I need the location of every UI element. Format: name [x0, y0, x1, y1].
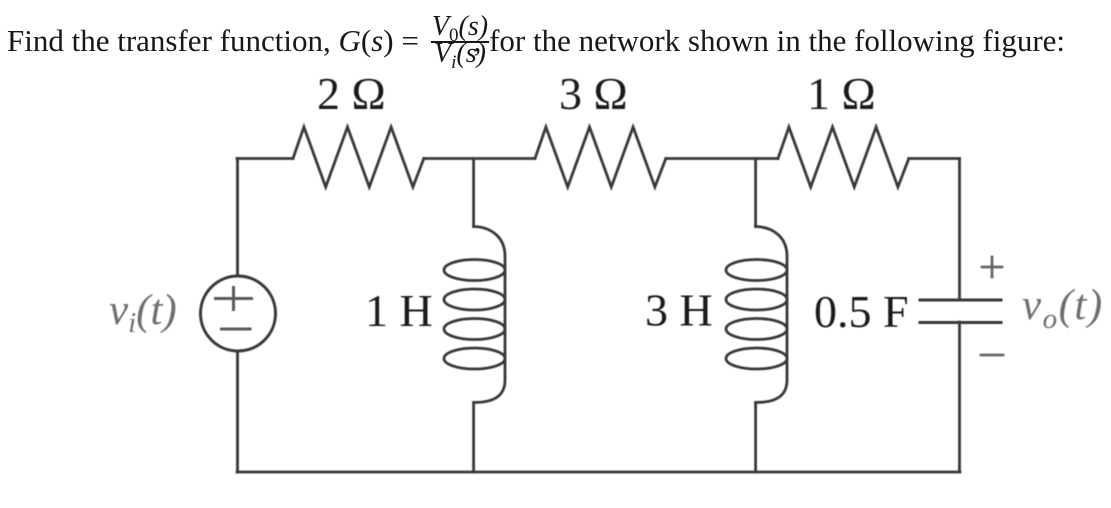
- label vi(t): [109, 287, 177, 339]
- svg-text:3 H: 3 H: [645, 285, 713, 336]
- capacitor C1 plates: [920, 300, 1001, 323]
- source minus sign: [222, 328, 251, 331]
- capacitor plus mark: [982, 257, 1002, 277]
- label 3 ohm: [559, 68, 628, 119]
- source plus sign: [216, 288, 252, 310]
- inductor L1 1H coil: [444, 227, 505, 403]
- source VS circle: [201, 276, 276, 351]
- wire left vertical lower: [236, 351, 239, 472]
- label 3 H: [645, 285, 713, 336]
- svg-text:3 Ω: 3 Ω: [559, 68, 628, 119]
- resistor R2 3ohm zigzag: [535, 127, 666, 187]
- wire bottom: [237, 471, 960, 474]
- wire right vertical lower: [958, 322, 961, 472]
- wire left vertical upper: [236, 159, 239, 277]
- header problem statement: [7, 25, 1065, 56]
- node branch wire L1 top: [472, 159, 475, 227]
- svg-text:vi(t): vi(t): [109, 287, 177, 339]
- wire top-left segment: [237, 157, 293, 160]
- label 0.5 F: [814, 286, 909, 337]
- header fraction Vo(s)/Vi(s): [431, 14, 489, 63]
- node branch wire L1 bottom: [472, 403, 475, 473]
- wire between R1 and R2: [424, 157, 535, 160]
- node branch wire L2 bottom: [754, 403, 757, 473]
- label 1 ohm: [807, 68, 876, 119]
- resistor R3 1ohm zigzag: [778, 127, 909, 187]
- svg-text:vo(t): vo(t): [1022, 282, 1104, 335]
- wire between R2 and R3: [666, 157, 778, 160]
- inductor L2 3H coil: [726, 227, 787, 403]
- resistor R1 2ohm zigzag: [293, 127, 424, 187]
- label 1 H: [365, 285, 433, 336]
- svg-text:0.5 F: 0.5 F: [814, 286, 909, 337]
- node branch wire L2 top: [754, 159, 757, 227]
- wire right vertical upper: [958, 159, 961, 300]
- svg-text:1 Ω: 1 Ω: [807, 68, 876, 119]
- label 2 ohm: [317, 68, 386, 119]
- svg-text:2 Ω: 2 Ω: [317, 68, 386, 119]
- wire top-right segment: [909, 157, 960, 160]
- capacitor minus mark: [981, 354, 1003, 357]
- svg-text:1 H: 1 H: [365, 285, 433, 336]
- label vo(t): [1022, 282, 1104, 335]
